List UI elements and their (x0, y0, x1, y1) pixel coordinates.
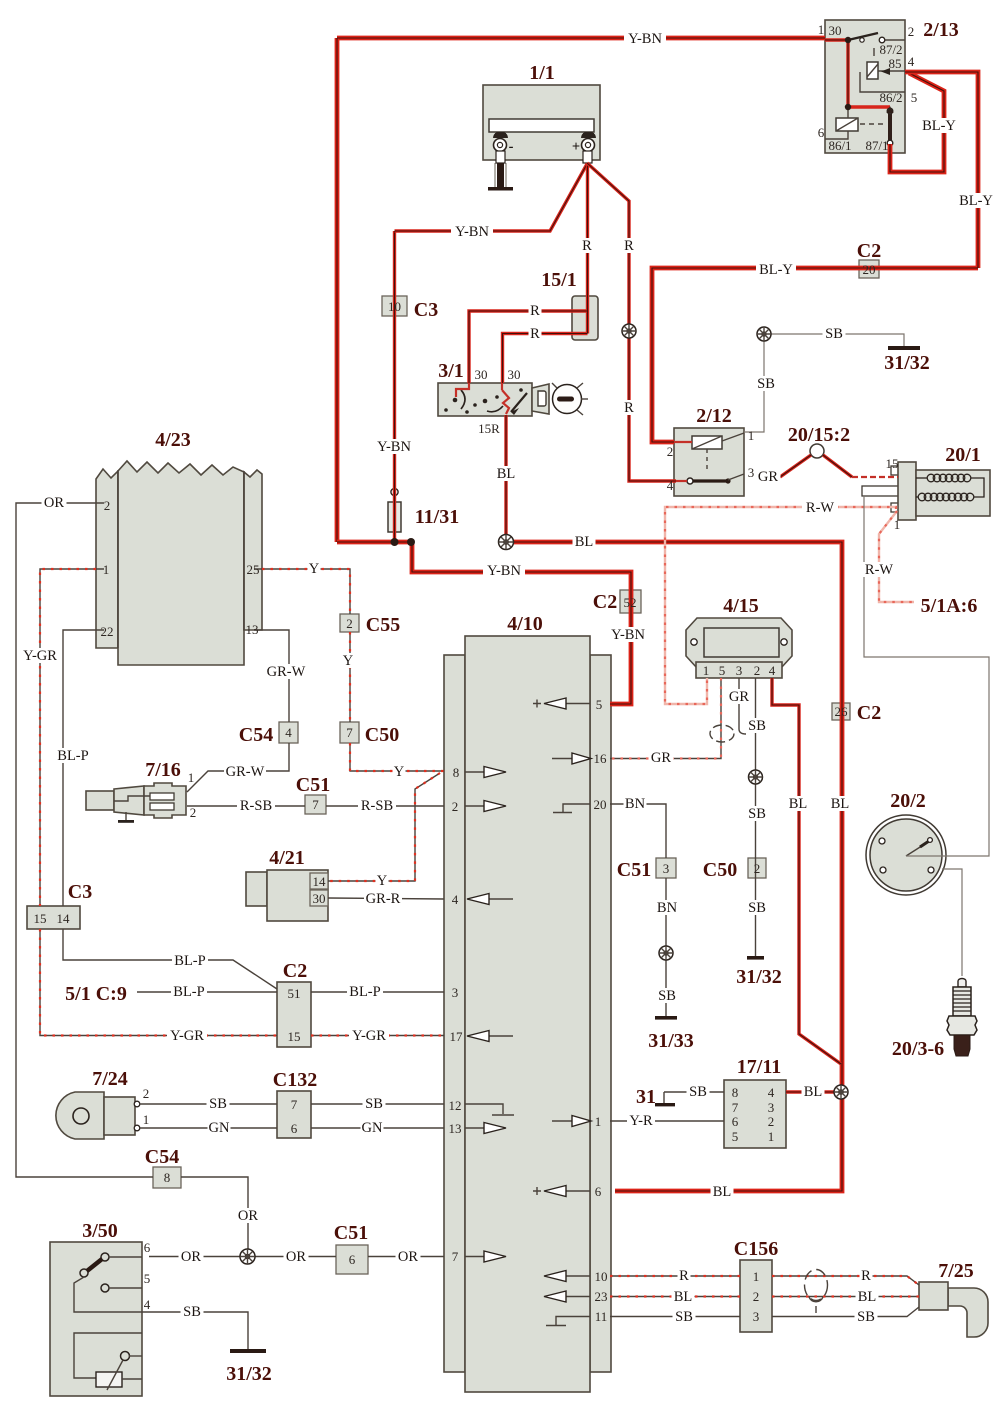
step symbol ECU pin12 (465, 1104, 514, 1115)
svg-text:OR: OR (398, 1249, 418, 1265)
svg-text:Y-BN: Y-BN (487, 563, 521, 579)
arrow ECU pin23 (544, 1291, 590, 1302)
svg-text:GR: GR (758, 469, 778, 485)
svg-text:6: 6 (291, 1121, 298, 1136)
svg-text:Y: Y (377, 873, 388, 889)
wire Y-BN to C2 52 to ECU pin5 (412, 542, 631, 704)
connector C55 pin2 (340, 614, 359, 632)
svg-text:2: 2 (190, 805, 197, 820)
svg-text:6: 6 (818, 125, 825, 140)
svg-text:R: R (624, 400, 634, 416)
svg-text:10: 10 (595, 1269, 608, 1284)
svg-text:R: R (624, 238, 634, 254)
svg-text:BL-P: BL-P (349, 984, 380, 1000)
svg-text:11: 11 (595, 1309, 608, 1324)
svg-text:5: 5 (911, 90, 918, 105)
connector C51 pin7 (305, 795, 326, 814)
svg-text:7: 7 (346, 725, 353, 740)
svg-text:4/15: 4/15 (723, 595, 759, 617)
distributor 7/25 (919, 1282, 988, 1337)
svg-text:7: 7 (291, 1097, 298, 1112)
svg-text:R-SB: R-SB (361, 798, 393, 814)
svg-text:GN: GN (209, 1120, 230, 1136)
wire red inside 3/1 switch (456, 383, 509, 414)
svg-text:GR-R: GR-R (366, 891, 401, 907)
module 4/15 (686, 618, 792, 678)
svg-text:BL: BL (789, 796, 808, 812)
arrow ECU pin1 (552, 1116, 591, 1127)
arrow ECU pin13 (465, 1123, 506, 1134)
svg-text:C2: C2 (857, 702, 881, 724)
svg-text:8: 8 (453, 765, 460, 780)
wire labels (624, 31, 666, 47)
spark gap connector 20/15:2 (810, 444, 824, 458)
svg-text:1: 1 (748, 428, 755, 443)
svg-text:23: 23 (595, 1289, 608, 1304)
svg-text:2: 2 (452, 799, 459, 814)
svg-text:16: 16 (594, 751, 608, 766)
svg-text:SB: SB (825, 326, 843, 342)
svg-text:31: 31 (636, 1086, 656, 1108)
svg-text:1: 1 (818, 22, 825, 37)
sensor 7/16 (86, 783, 186, 823)
ground battery minus (488, 163, 513, 191)
svg-text:3: 3 (748, 465, 755, 480)
wire BL-Y 87/1 loop to coil 85 (890, 73, 944, 172)
svg-text:5/1 C:9: 5/1 C:9 (65, 983, 127, 1005)
svg-text:BL: BL (831, 796, 850, 812)
svg-text:1: 1 (703, 663, 710, 678)
svg-text:1: 1 (143, 1112, 150, 1127)
svg-text:SB: SB (748, 900, 766, 916)
svg-text:BL: BL (575, 534, 594, 550)
svg-text:7/16: 7/16 (145, 759, 181, 781)
svg-text:30: 30 (313, 891, 326, 906)
arrow ECU pin6 with plus (533, 1186, 590, 1197)
connector C50 pin2 (748, 858, 766, 878)
svg-text:C51: C51 (296, 774, 330, 796)
svg-text:GR-W: GR-W (226, 764, 265, 780)
svg-text:7/24: 7/24 (92, 1068, 128, 1090)
wire SB 2/12 pin1 to junction to ground (744, 328, 904, 432)
wire BL C156 row2 (610, 1296, 919, 1298)
connector C50 pin7 (340, 722, 359, 743)
svg-text:17: 17 (450, 1029, 464, 1044)
svg-text:C3: C3 (414, 299, 438, 321)
svg-text:14: 14 (57, 911, 71, 926)
svg-text:SB: SB (689, 1084, 707, 1100)
svg-text:3: 3 (753, 1309, 760, 1324)
svg-text:C156: C156 (734, 1238, 778, 1260)
svg-text:GN: GN (362, 1120, 383, 1136)
connector C54 pin4 (279, 722, 298, 743)
svg-text:52: 52 (624, 595, 637, 610)
svg-text:86/1: 86/1 (828, 138, 851, 153)
svg-text:20/1: 20/1 (945, 444, 981, 466)
connector C2 pin20 (859, 260, 879, 278)
svg-text:SB: SB (857, 1309, 875, 1325)
svg-text:30: 30 (475, 367, 488, 382)
svg-text:5/1A:6: 5/1A:6 (921, 595, 978, 617)
svg-text:Y-GR: Y-GR (170, 1028, 204, 1044)
svg-text:C3: C3 (68, 881, 92, 903)
svg-text:BL-P: BL-P (57, 748, 88, 764)
wire SB 3/50 pin4 to ground (142, 1312, 248, 1350)
wire GR-W 4/23 pin13 to C54 to 7/16 pin1 (187, 630, 289, 792)
svg-text:BL-P: BL-P (174, 953, 205, 969)
wire Y-GR 4/23 pin1 to C3 to C2 to ECU pin17 (40, 569, 444, 1036)
relay 2/12 (674, 428, 744, 496)
svg-text:7: 7 (732, 1100, 739, 1115)
svg-text:BL-Y: BL-Y (759, 262, 793, 278)
svg-text:20: 20 (863, 262, 876, 277)
svg-text:6: 6 (595, 1184, 602, 1199)
fuse 15/1 (572, 296, 598, 340)
svg-text:C51: C51 (334, 1222, 368, 1244)
svg-text:C132: C132 (273, 1069, 317, 1091)
ground 31/32 right (888, 346, 920, 350)
contact bar 87/1 in 2/13 (887, 106, 894, 146)
wire OR 4/23 pin2 to C54 to junction (16, 503, 248, 1256)
svg-text:31/32: 31/32 (226, 1363, 272, 1385)
svg-text:1: 1 (103, 562, 110, 577)
svg-text:Y-BN: Y-BN (611, 627, 645, 643)
svg-text:13: 13 (246, 622, 259, 637)
svg-text:25: 25 (247, 562, 260, 577)
svg-text:1: 1 (188, 770, 195, 785)
svg-text:Y-BN: Y-BN (455, 224, 489, 240)
svg-text:1: 1 (768, 1129, 775, 1144)
wire GR stub 4/15 pin3 (739, 678, 746, 734)
svg-text:BL-Y: BL-Y (922, 118, 956, 134)
svg-text:Y: Y (394, 764, 405, 780)
twisted pair symbol C156 (805, 1270, 828, 1314)
svg-text:BL: BL (497, 466, 516, 482)
svg-text:10: 10 (388, 299, 401, 314)
wire Y-BN battery feed top (337, 38, 825, 542)
svg-text:31/32: 31/32 (884, 352, 930, 374)
svg-text:SB: SB (183, 1304, 201, 1320)
connector 17/11 (724, 1080, 786, 1148)
wire Y-BN via fuse 11/31 (393, 231, 396, 542)
svg-text:SB: SB (748, 718, 766, 734)
step symbol ECU pin11 (546, 1317, 590, 1326)
wire junction row at 11/31 (337, 540, 412, 545)
svg-text:R: R (582, 238, 592, 254)
svg-text:87/1: 87/1 (865, 138, 888, 153)
wire SB 17/11 pin8 to ground 31 (664, 1092, 724, 1103)
spark plug 20/3-6 (947, 979, 977, 1057)
svg-text:26: 26 (835, 704, 849, 719)
svg-text:OR: OR (238, 1208, 258, 1224)
connector C51 pin6 (336, 1245, 368, 1274)
svg-text:15: 15 (886, 456, 899, 471)
wire SB 7/24 pin2 to C132 to ECU pin12 (140, 1103, 444, 1105)
wire GR 4/15 pin5 to ECU pin16 (610, 678, 721, 759)
wire Y 4/23 pin25 to C55 C50 to ECU pin8 (262, 569, 444, 771)
wire BL 17/11 pin4 to junction (786, 1090, 841, 1093)
svg-text:C2: C2 (857, 240, 881, 262)
svg-text:4/10: 4/10 (507, 613, 543, 635)
ground 31 at 17/11 (655, 1103, 675, 1106)
svg-text:R: R (530, 303, 540, 319)
svg-text:1: 1 (753, 1269, 760, 1284)
svg-text:12: 12 (449, 1098, 462, 1113)
wire R C156 row1 (610, 1276, 919, 1285)
connector C3 pins 15 14 (27, 906, 80, 929)
svg-text:87/2: 87/2 (879, 42, 902, 57)
svg-text:2/12: 2/12 (696, 405, 732, 427)
arrow ECU pin17 (467, 1031, 513, 1042)
ECU 4/23 (96, 461, 262, 665)
wire HT coil 20/1 to gauge 20/2 (864, 496, 989, 856)
wire GR spark gap 2/12 to 20/1 (780, 455, 898, 477)
svg-text:R-SB: R-SB (240, 798, 272, 814)
svg-text:Y-BN: Y-BN (377, 439, 411, 455)
svg-text:8: 8 (164, 1170, 171, 1185)
arrow ECU pin7 (465, 1251, 506, 1262)
wire R-W coil 20/1 to 4/15 pin1 (665, 507, 896, 704)
svg-text:20: 20 (594, 797, 607, 812)
pin ticks 4/23 (96, 503, 262, 630)
star junction on R wire (622, 324, 636, 338)
svg-text:GR: GR (651, 750, 671, 766)
svg-text:51: 51 (288, 986, 301, 1001)
star junction SB 4/15 (749, 770, 763, 784)
svg-text:4: 4 (769, 663, 776, 678)
junction dots 2/13 (845, 37, 851, 43)
svg-text:8: 8 (732, 1085, 739, 1100)
wire Y-BN inside 2/13 pin30 (825, 40, 890, 144)
svg-text:30: 30 (829, 23, 842, 38)
svg-text:6: 6 (732, 1114, 739, 1129)
svg-text:17/11: 17/11 (737, 1056, 781, 1078)
connector C54 pin8 (153, 1167, 181, 1188)
svg-text:86/2: 86/2 (879, 90, 902, 105)
svg-text:SB: SB (675, 1309, 693, 1325)
star junction BL near 11/31 (499, 535, 514, 550)
svg-text:13: 13 (449, 1121, 462, 1136)
shield ellipse 4/15 pin5 (710, 725, 734, 742)
svg-text:6: 6 (349, 1252, 356, 1267)
svg-text:14: 14 (313, 874, 327, 889)
ground 31/32 mid (747, 956, 764, 960)
svg-text:20/15:2: 20/15:2 (788, 424, 850, 446)
svg-text:R-W: R-W (806, 500, 835, 516)
connector C51 pin3 (656, 858, 676, 878)
connector C3 pin10 (382, 296, 407, 316)
svg-text:2: 2 (104, 498, 111, 513)
svg-text:4/23: 4/23 (155, 429, 191, 451)
star junction SB near 2/12 (757, 327, 771, 341)
wire GN 7/24 pin1 to C132 to ECU pin13 (140, 1127, 444, 1129)
connector C2 pins 51 15 (277, 982, 311, 1047)
svg-text:GR: GR (729, 689, 749, 705)
svg-text:BL-P: BL-P (173, 984, 204, 1000)
svg-text:C50: C50 (365, 724, 399, 746)
wire GR-R 4/21 pin30 to ECU pin4 (328, 898, 444, 899)
svg-text:5: 5 (719, 663, 726, 678)
svg-text:R: R (861, 1268, 871, 1284)
svg-text:7/25: 7/25 (938, 1260, 974, 1282)
svg-text:SB: SB (209, 1096, 227, 1112)
svg-text:+: + (572, 139, 580, 155)
svg-text:15: 15 (288, 1029, 301, 1044)
arrow ECU pin8 (465, 767, 506, 778)
svg-text:1: 1 (894, 517, 901, 532)
wire Y-R ECU pin1 to 17/11 pin6 (610, 1120, 724, 1122)
wire BL ignition 15R to junction (504, 415, 507, 542)
wire gauge 20/2 to spark plug (942, 869, 962, 976)
svg-text:OR: OR (181, 1249, 201, 1265)
svg-text:15/1: 15/1 (541, 269, 577, 291)
svg-text:4: 4 (285, 725, 292, 740)
svg-text:15: 15 (34, 911, 47, 926)
wire BL 4/15 pin4 to junction (772, 678, 841, 1064)
svg-text:C50: C50 (703, 859, 737, 881)
svg-text:2: 2 (667, 444, 674, 459)
arrow ECU pin4 (467, 894, 513, 905)
svg-text:2: 2 (908, 24, 915, 39)
svg-text:3: 3 (736, 663, 743, 678)
svg-text:C55: C55 (366, 614, 400, 636)
svg-text:5: 5 (144, 1271, 151, 1286)
svg-text:2: 2 (754, 663, 761, 678)
svg-text:BL-Y: BL-Y (959, 193, 993, 209)
ground 31/32 bottom (230, 1349, 266, 1353)
svg-text:4: 4 (768, 1085, 775, 1100)
wire R-SB 7/16 pin2 to C51 to ECU pin2 (187, 805, 444, 807)
svg-text:Y-GR: Y-GR (352, 1028, 386, 1044)
wire BN ECU pin20 to C51 3 to ground 31/33 (610, 804, 666, 1016)
connector C2 pin52 (620, 590, 641, 613)
star junction BL at 17/11 (834, 1085, 848, 1099)
wire Y-BN battery to C3 (395, 164, 588, 231)
svg-text:3: 3 (663, 861, 670, 876)
svg-text:4: 4 (144, 1297, 151, 1312)
svg-text:C2: C2 (593, 591, 617, 613)
svg-text:BL: BL (713, 1184, 732, 1200)
svg-text:20/3-6: 20/3-6 (892, 1038, 944, 1060)
wire BL junction to C2 26 to ECU pin6 (506, 542, 842, 1191)
svg-text:4/21: 4/21 (269, 847, 305, 869)
svg-text:3: 3 (452, 985, 459, 1000)
svg-text:Y-GR: Y-GR (23, 648, 57, 664)
svg-text:20/2: 20/2 (890, 790, 926, 812)
wire OR row to 3/50 and C51 to ECU pin7 (149, 1256, 444, 1258)
svg-text:R-W: R-W (865, 562, 894, 578)
relay 4/21 (246, 870, 328, 921)
svg-text:Y-BN: Y-BN (628, 31, 662, 47)
ECU 4/10 (444, 636, 611, 1392)
svg-text:3/50: 3/50 (82, 1220, 118, 1242)
svg-text:2: 2 (768, 1114, 775, 1129)
step symbol ECU pin20 (553, 804, 590, 813)
wire BL-P 4/23 pin22 to C3 pin14 (63, 630, 277, 989)
ignition switch 3/1 (438, 383, 588, 416)
svg-text:5: 5 (732, 1129, 739, 1144)
svg-text:5: 5 (596, 697, 603, 712)
svg-text:SB: SB (757, 376, 775, 392)
wire SB C156 row3 (610, 1307, 919, 1317)
wire Y branch to 4/21 pin14 (328, 773, 440, 881)
connector C2 pin26 (832, 703, 850, 720)
svg-text:3/1: 3/1 (438, 360, 464, 382)
svg-text:BN: BN (625, 796, 646, 812)
svg-text:4: 4 (667, 478, 674, 493)
svg-text:SB: SB (658, 988, 676, 1004)
gauge 20/2 (866, 815, 946, 895)
connector C132 pins 7 6 (277, 1091, 311, 1138)
connector C156 (740, 1260, 772, 1332)
wire R-W coil to 5/1A:6 (879, 511, 914, 602)
sensor 7/24 (56, 1092, 140, 1139)
svg-text:BL: BL (858, 1289, 877, 1305)
svg-text:OR: OR (44, 495, 64, 511)
svg-text:C2: C2 (283, 960, 307, 982)
svg-text:Y-R: Y-R (629, 1113, 653, 1129)
svg-text:C51: C51 (617, 859, 651, 881)
svg-text:7: 7 (452, 1249, 459, 1264)
arrow ECU pin16 (552, 753, 591, 764)
svg-text:22: 22 (101, 624, 114, 639)
svg-text:R: R (530, 326, 540, 342)
svg-text:85: 85 (889, 56, 902, 71)
svg-text:R: R (679, 1268, 689, 1284)
svg-text:Y: Y (343, 653, 354, 669)
svg-text:7: 7 (312, 797, 319, 812)
ignition coil 20/1 (862, 462, 990, 520)
svg-text:6: 6 (144, 1240, 151, 1255)
svg-text:C54: C54 (145, 1146, 179, 1168)
svg-text:2: 2 (754, 861, 761, 876)
relay 2/13 (825, 20, 905, 153)
wire R battery to 2/12 pin4 (587, 163, 676, 481)
arrow ECU pin10 (544, 1271, 590, 1282)
star junction OR (240, 1249, 255, 1264)
arrow ECU pin5 with plus (533, 698, 590, 709)
svg-text:31/33: 31/33 (648, 1030, 694, 1052)
svg-text:2: 2 (346, 616, 353, 631)
svg-text:2: 2 (143, 1086, 150, 1101)
svg-text:2/13: 2/13 (923, 19, 959, 41)
svg-text:31/32: 31/32 (736, 966, 782, 988)
svg-text:11/31: 11/31 (415, 506, 459, 528)
svg-text:BL: BL (804, 1084, 823, 1100)
switch 3/50 (50, 1242, 142, 1396)
svg-text:4: 4 (908, 54, 915, 69)
wire red 2/12 pin2 into coil (674, 441, 692, 443)
svg-text:OR: OR (286, 1249, 306, 1265)
svg-text:C54: C54 (239, 724, 273, 746)
wire R inside 2/12 to contact (676, 480, 687, 482)
battery 1/1 (483, 85, 600, 163)
junction dots 11/31 (391, 538, 399, 546)
svg-text:BL: BL (674, 1289, 693, 1305)
wire SB 4/15 pin2 to ground (755, 678, 757, 958)
svg-text:-: - (509, 139, 514, 155)
svg-text:30: 30 (508, 367, 521, 382)
svg-text:2: 2 (753, 1289, 760, 1304)
ground 31/33 (655, 1016, 677, 1020)
svg-text:15R: 15R (478, 421, 500, 436)
svg-text:SB: SB (748, 806, 766, 822)
wire R battery to 15/1 (469, 163, 588, 383)
svg-text:BN: BN (657, 900, 678, 916)
star junction BN-SB (659, 946, 673, 960)
svg-text:4: 4 (452, 892, 459, 907)
svg-text:Y: Y (309, 561, 320, 577)
